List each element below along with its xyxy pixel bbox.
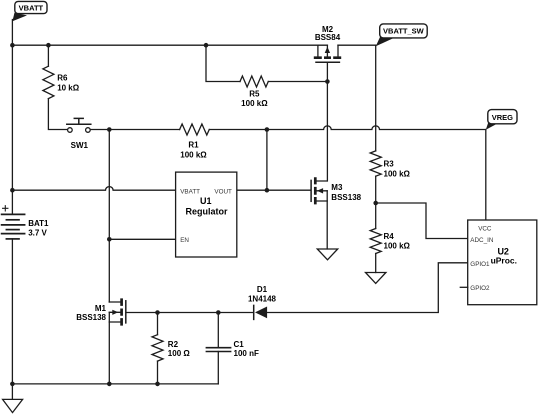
wire C1 to ground rail bbox=[217, 352, 219, 384]
node R2 top junction bbox=[155, 310, 160, 315]
node VBATT at U1 row bbox=[10, 188, 15, 193]
wire R6 to SW1 bbox=[48, 99, 67, 130]
wire M2 gate to M3 drain bbox=[326, 63, 328, 181]
resistor R4 bbox=[370, 229, 381, 254]
svg-text:100 kΩ: 100 kΩ bbox=[384, 241, 411, 250]
wire GPIO2 stub bbox=[460, 286, 467, 288]
svg-text:BAT1: BAT1 bbox=[28, 219, 49, 228]
svg-text:GPIO1: GPIO1 bbox=[470, 261, 490, 268]
svg-text:EN: EN bbox=[180, 237, 189, 244]
node R2 bottom junction bbox=[155, 382, 160, 387]
wire M1 source to ground rail bbox=[108, 312, 110, 384]
svg-text:uProc.: uProc. bbox=[491, 255, 517, 265]
svg-text:BSS84: BSS84 bbox=[315, 33, 341, 42]
svg-text:ADC_IN: ADC_IN bbox=[470, 237, 494, 244]
svg-text:M3: M3 bbox=[331, 183, 343, 192]
wire R6 branch top bbox=[47, 45, 49, 66]
wire R3 to R4 bbox=[375, 176, 377, 228]
transistor M2 bbox=[314, 45, 341, 62]
capacitor C1 bbox=[206, 348, 230, 352]
wire SW1 to node bbox=[90, 129, 109, 131]
node R1-VREG row junction bbox=[265, 127, 270, 132]
IC U2 uProc box bbox=[468, 220, 537, 305]
wire EN to switch node column bbox=[109, 238, 175, 240]
svg-text:R1: R1 bbox=[188, 140, 199, 149]
svg-text:VBATT_SW: VBATT_SW bbox=[383, 27, 425, 36]
battery BAT1 bbox=[2, 214, 25, 239]
wire top VBATT rail bbox=[12, 44, 327, 46]
resistor R2 bbox=[152, 335, 163, 361]
wire VOUT row to M3 gate bbox=[237, 189, 311, 191]
svg-text:100 kΩ: 100 kΩ bbox=[241, 99, 268, 108]
wire VBATT_SW down to R3 bbox=[375, 45, 377, 151]
resistor R6 bbox=[43, 66, 54, 98]
node VREG tag bbox=[486, 110, 517, 130]
wire R1 to VREG row with hops bbox=[209, 126, 486, 130]
node M1 source at ground rail bbox=[107, 382, 112, 387]
svg-text:VREG: VREG bbox=[492, 113, 513, 122]
svg-text:3.7 V: 3.7 V bbox=[28, 228, 47, 237]
wire R5 to M2 gate node bbox=[268, 81, 327, 83]
transistor M3 bbox=[311, 177, 327, 249]
svg-text:R2: R2 bbox=[168, 340, 179, 349]
svg-text:VBATT: VBATT bbox=[19, 4, 44, 13]
wire node to R1 bbox=[109, 129, 179, 131]
node SW1-R1 junction bbox=[107, 127, 112, 132]
svg-text:BSS138: BSS138 bbox=[331, 193, 361, 202]
node R5 top bbox=[204, 43, 209, 48]
node battery ground junction bbox=[10, 382, 15, 387]
node R5-M2 gate junction bbox=[325, 79, 330, 84]
ground (battery) bbox=[3, 399, 23, 412]
svg-text:BSS138: BSS138 bbox=[76, 313, 106, 322]
switch SW1 bbox=[67, 118, 91, 132]
wire switch node down to M1 drain bbox=[108, 130, 110, 303]
transistor M1 bbox=[109, 298, 126, 325]
wire battery - to ground rail bbox=[11, 239, 13, 399]
svg-text:D1: D1 bbox=[257, 285, 268, 294]
resistor R3 bbox=[370, 151, 381, 176]
node R6 top bbox=[46, 43, 51, 48]
svg-text:1N4148: 1N4148 bbox=[248, 294, 277, 303]
svg-text:100 Ω: 100 Ω bbox=[168, 349, 191, 358]
IC U1 Regulator box bbox=[176, 172, 237, 257]
svg-text:10 kΩ: 10 kΩ bbox=[57, 84, 80, 93]
svg-text:VCC: VCC bbox=[478, 226, 492, 233]
ground (R4) bbox=[366, 273, 386, 284]
wire VREG to U2 VCC bbox=[485, 130, 487, 221]
node VOUT junction bbox=[265, 188, 270, 193]
wire R4 to ground bbox=[375, 254, 377, 273]
node VBATT tag bbox=[12, 1, 47, 21]
svg-text:100 nF: 100 nF bbox=[234, 349, 259, 358]
svg-text:M1: M1 bbox=[95, 304, 107, 313]
svg-text:SW1: SW1 bbox=[71, 141, 89, 150]
resistor R5 bbox=[240, 76, 268, 87]
svg-text:U1: U1 bbox=[200, 196, 212, 206]
wire VBATT to U1 VBATT pin with hop bbox=[12, 187, 175, 191]
wire VBATT vertical (battery + to top rail and VBATT row) bbox=[11, 20, 13, 215]
wire R1 right to VOUT bbox=[266, 130, 268, 191]
diode D1 bbox=[254, 305, 267, 319]
svg-text:GPIO2: GPIO2 bbox=[470, 285, 490, 292]
svg-text:R4: R4 bbox=[384, 232, 395, 241]
wire R5 branch bbox=[206, 45, 240, 81]
svg-text:Regulator: Regulator bbox=[185, 207, 228, 217]
wire R3R4 node to ADC_IN bbox=[376, 203, 468, 239]
svg-text:R6: R6 bbox=[57, 74, 68, 83]
node EN junction bbox=[107, 237, 112, 242]
node R3-R4 junction bbox=[373, 201, 378, 206]
node VBATT_SW tag bbox=[376, 24, 427, 46]
resistor R1 bbox=[180, 124, 210, 135]
wire GPIO1 to D1 anode bbox=[268, 263, 468, 313]
ground (M3 source) bbox=[317, 249, 337, 260]
node C1 top junction bbox=[216, 310, 221, 315]
svg-text:R3: R3 bbox=[384, 159, 395, 168]
svg-text:VOUT: VOUT bbox=[214, 188, 232, 195]
svg-text:R5: R5 bbox=[249, 90, 260, 99]
wire D1 cathode to M1 gate bbox=[127, 312, 254, 314]
node VBATT at top rail bbox=[10, 43, 15, 48]
svg-text:VBATT: VBATT bbox=[180, 188, 200, 195]
wire R2 branch bbox=[157, 313, 159, 335]
wire R2 to ground rail bbox=[157, 361, 159, 384]
wire ground rail bbox=[12, 383, 218, 385]
wire C1 branch bbox=[217, 313, 219, 348]
svg-text:C1: C1 bbox=[234, 340, 245, 349]
svg-text:100 kΩ: 100 kΩ bbox=[384, 169, 411, 178]
svg-text:100 kΩ: 100 kΩ bbox=[180, 150, 207, 159]
wire M2 drain to VBATT_SW bbox=[338, 44, 376, 46]
